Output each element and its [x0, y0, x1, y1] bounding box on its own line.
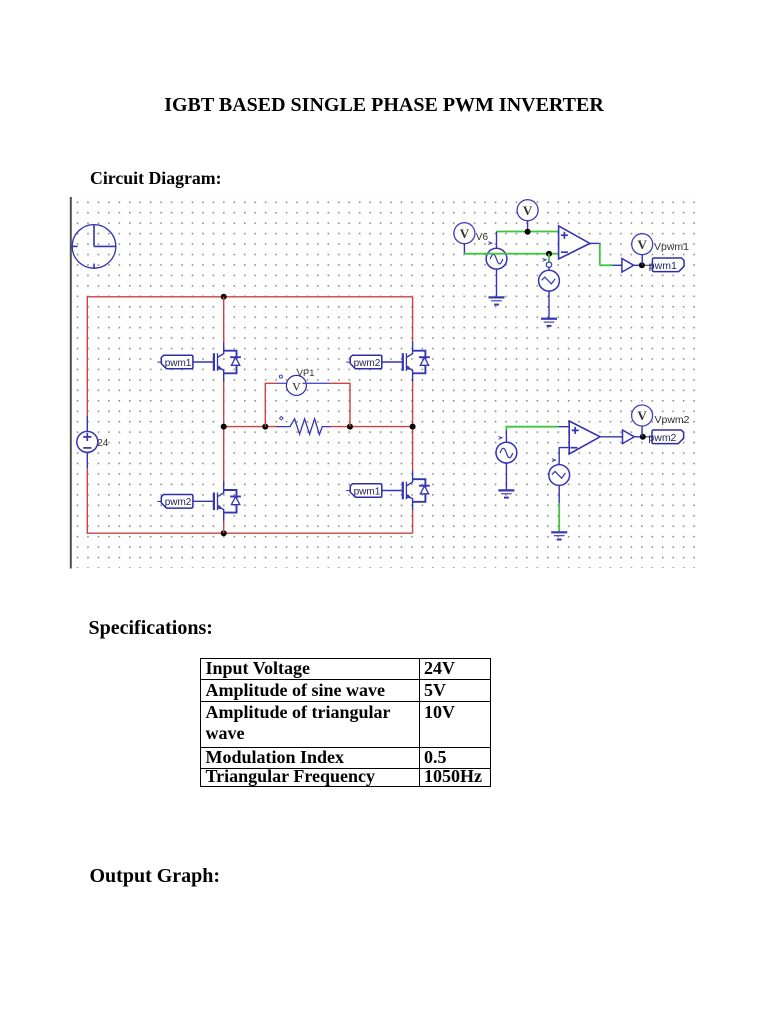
wire left leg lower mid	[223, 427, 225, 482]
wire U1 out green down	[599, 243, 601, 265]
node marker sine1	[488, 242, 491, 245]
wire U2 out	[600, 436, 623, 438]
label pwm1 output tag	[652, 258, 684, 272]
SVGSTART	[60, 190, 705, 575]
label pwm2 gate tag Q2	[346, 355, 382, 369]
wire green plus bus 2	[506, 427, 558, 431]
op-amp comparator U1	[559, 226, 590, 259]
label pwm2 output tag	[652, 430, 684, 444]
wire U1 out green right	[600, 264, 613, 266]
svg-text:pwm1: pwm1	[165, 358, 192, 369]
buffer gate B1	[622, 259, 634, 273]
node marker tri2	[552, 459, 555, 462]
resistor R1 load	[277, 419, 332, 435]
node marker tri1	[543, 258, 546, 261]
ground tri2	[551, 532, 567, 539]
voltmeter Vpwm2	[632, 405, 653, 426]
wire left leg upper	[223, 297, 225, 343]
wire load rail right	[331, 426, 413, 428]
wire green minus bus	[464, 253, 560, 255]
buffer gate B2	[623, 430, 635, 444]
transistor Q1 IGBT	[193, 342, 241, 382]
node terminal tri1	[546, 262, 551, 267]
svg-text:pwm2: pwm2	[354, 358, 381, 369]
wire right leg upper	[412, 297, 414, 343]
svg-text:VP1: VP1	[297, 368, 315, 378]
node junction resistor right	[347, 424, 353, 430]
wire U2 minus lead	[559, 448, 569, 464]
voltmeter V top	[517, 200, 538, 221]
node junction out2	[640, 434, 646, 440]
triangle-wave source Vtri1	[548, 267, 550, 270]
wire sine bottom lead	[496, 269, 498, 297]
svg-text:pwm1: pwm1	[649, 260, 677, 272]
voltmeter VP1	[286, 375, 306, 395]
wire left edge upper	[86, 296, 88, 416]
svg-text:pwm2: pwm2	[648, 432, 676, 444]
label pwm1 gate tag Q4	[346, 484, 382, 498]
ground sine1	[489, 297, 505, 304]
wire load rail left	[224, 426, 278, 428]
clock element	[72, 225, 116, 269]
wire left leg bottom	[223, 521, 225, 533]
wire buffer1 in	[613, 264, 622, 266]
wire right leg lower mid	[412, 427, 414, 471]
heading Circuit Diagram	[90, 168, 222, 189]
wire Vpwm2 stub	[641, 426, 643, 437]
label pwm1 gate tag	[157, 355, 193, 369]
label pwm2 gate tag	[157, 495, 193, 509]
wire U1 out	[590, 242, 601, 244]
node junction bottom	[221, 530, 227, 536]
wire green plus bus	[497, 231, 560, 233]
wire out2 to tag	[643, 436, 653, 438]
wire tri1 stub	[548, 254, 550, 262]
triangle-wave source Vtri2	[549, 465, 570, 486]
transistor Q4 IGBT	[382, 471, 430, 511]
node junction minus bus	[546, 251, 552, 257]
sine source Vsin1	[486, 248, 507, 269]
wire sine2 bottom lead	[505, 463, 507, 490]
voltmeter Vpwm1	[632, 234, 653, 255]
op-amp comparator U2	[569, 421, 600, 454]
heading Output Graph	[90, 865, 221, 888]
node marker sine2	[499, 436, 502, 439]
node junction load right	[410, 424, 416, 430]
wire VP1 left stub	[277, 382, 290, 384]
table specifications	[200, 658, 491, 787]
wire Vpwm1 stub	[641, 255, 643, 266]
sine source Vsin2	[496, 442, 517, 463]
svg-text:Vpwm2: Vpwm2	[655, 414, 690, 426]
wire tri2 lead green	[558, 503, 560, 532]
wire plus bus 2 blue tail	[559, 426, 570, 428]
wire left edge lower	[86, 468, 88, 534]
svg-text:V: V	[292, 380, 301, 394]
node junction resistor left	[262, 424, 268, 430]
svg-text:24: 24	[97, 438, 109, 449]
wire tri2 lead blue	[558, 485, 560, 504]
svg-text:pwm1: pwm1	[354, 486, 381, 497]
node junction out1	[639, 262, 645, 268]
wire V6 stub	[463, 244, 465, 255]
voltmeter V6	[454, 223, 475, 244]
wire buffer2 out	[634, 436, 643, 438]
wire out1 to tag	[642, 264, 654, 266]
wire bottom rail	[87, 532, 412, 534]
wire left leg mid	[223, 382, 225, 427]
wire top rail	[87, 296, 412, 298]
node junction top	[221, 294, 227, 300]
transistor Q2 IGBT	[382, 342, 430, 382]
node marker VP1	[279, 375, 282, 378]
wire right leg bottom	[412, 510, 414, 533]
transistor Q3 IGBT	[193, 481, 241, 521]
svg-text:Vpwm1: Vpwm1	[654, 241, 689, 253]
svg-text:pwm2: pwm2	[165, 497, 192, 508]
node junction plus bus	[525, 229, 531, 235]
ground sine2	[498, 490, 514, 497]
wire sine top lead	[496, 232, 498, 249]
wire V top stub	[527, 221, 529, 233]
heading Specifications	[89, 617, 213, 640]
ground tri1	[541, 319, 557, 326]
dc source V1 24V	[77, 416, 98, 468]
wire tri1 bottom lead	[548, 291, 550, 319]
wire VP1 right branch	[330, 383, 351, 426]
wire buffer1 out	[634, 264, 642, 266]
svg-text:V6: V6	[476, 232, 489, 243]
wire VP1 left branch	[265, 383, 277, 426]
node junction load left	[221, 424, 227, 430]
title	[0, 94, 768, 117]
node marker resistor	[279, 416, 283, 420]
wire sine2 top lead	[505, 430, 507, 444]
wire VP1 right stub	[303, 382, 331, 384]
wire right leg mid	[412, 382, 414, 427]
